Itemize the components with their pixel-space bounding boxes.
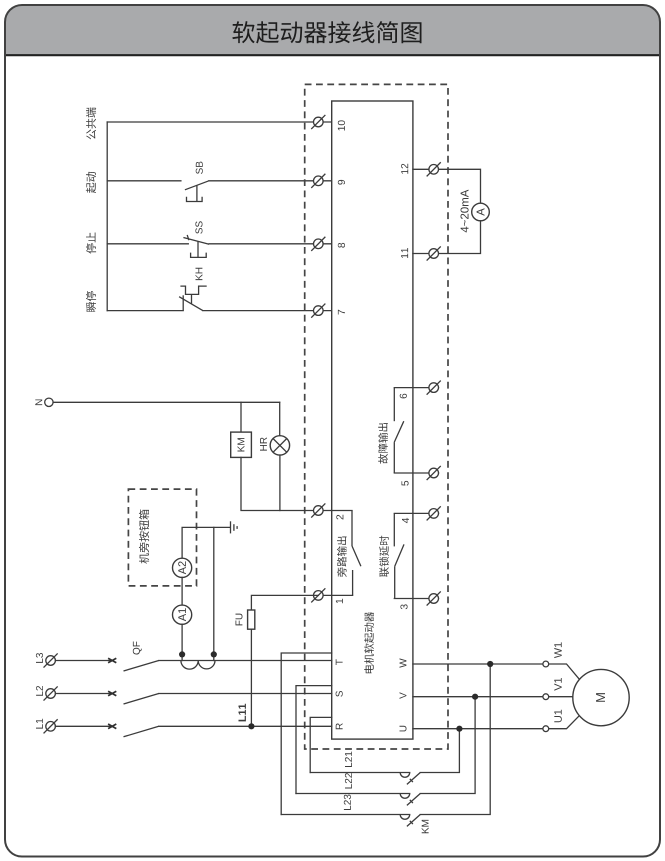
wire 停止 left segment [107, 243, 188, 245]
ammeter A (4~20mA) [472, 203, 490, 221]
wire A1 to CT lead 1 [181, 624, 183, 660]
terminal 10 [312, 115, 325, 128]
pin label 4 [402, 518, 409, 523]
label KH [196, 268, 203, 280]
wire S phase to box [159, 693, 332, 695]
wire CT lead 2 [213, 527, 215, 660]
breaker QF blade L3 [124, 661, 159, 672]
label A1 [178, 608, 186, 621]
label W1 [554, 642, 561, 658]
pin label 11 [401, 248, 408, 258]
wire KM contact row L23 left [281, 814, 410, 816]
wire pin 12 to ammeter [413, 169, 481, 203]
indicator lamp HR [270, 436, 289, 455]
junction V bypass [472, 694, 478, 700]
pin label T [336, 659, 343, 665]
terminal V1 [543, 694, 549, 700]
wire 瞬停 right segment to pin 7 [203, 310, 332, 312]
earth ground [231, 521, 238, 533]
terminal 5 [427, 466, 440, 479]
label A2 [178, 561, 186, 574]
wire L1 to breaker [55, 725, 111, 727]
label V1 [554, 678, 561, 691]
terminal 12 [427, 163, 440, 176]
breaker cross L2 [108, 691, 116, 696]
breaker cross L3 [108, 658, 116, 663]
label L22 [345, 773, 352, 788]
pin label 2 [336, 515, 343, 520]
terminal L1 [44, 720, 57, 733]
pin label W [400, 658, 407, 667]
button A1 [173, 605, 192, 624]
label FU [236, 614, 243, 626]
wire bypass riser from S [296, 686, 332, 794]
junction CT lead 1 [179, 651, 185, 657]
pin label 6 [400, 394, 407, 399]
wire 起动 right segment to pin 9 [209, 180, 332, 182]
label 旁路输出 [337, 537, 347, 578]
wire W output [413, 663, 543, 665]
terminal L3 [44, 654, 57, 667]
current transformer on T phase [181, 661, 215, 670]
pin label U [400, 726, 407, 732]
label 电机软起动器 [364, 612, 374, 673]
label N [35, 400, 42, 406]
label 4~20mA [461, 190, 469, 233]
fuse FU [248, 610, 255, 629]
thermal relay contact KH (NC) [179, 286, 207, 311]
contactor main contact KM contact row L22 [400, 794, 420, 806]
title bar fill [5, 5, 660, 55]
wire pin 6 stub [394, 387, 438, 389]
motor M [573, 669, 629, 725]
title 软起动器接线简图 [232, 21, 421, 43]
terminal L2 [44, 687, 57, 700]
wire A2 to ground corner [182, 527, 230, 558]
contactor main contact KM contact row L23 [400, 815, 420, 827]
wire T phase to box [159, 660, 332, 662]
wire R phase to box [159, 725, 332, 727]
label 起动 [86, 172, 96, 193]
terminal 3 [427, 592, 440, 605]
wire 公共端 (common) to pin 10 [107, 121, 332, 123]
wire ammeter to pin 11 [413, 221, 481, 254]
pin label 3 [400, 604, 407, 609]
pin label 5 [402, 481, 409, 486]
terminal 6 [427, 381, 440, 394]
label L1 [36, 719, 43, 729]
junction CT lead 2 [211, 651, 217, 657]
relay contact fault output 故障输出 [394, 388, 404, 473]
pin label 12 [401, 164, 408, 174]
control bus wire [106, 122, 108, 311]
terminal 2 [312, 504, 325, 517]
contactor coil KM [231, 432, 252, 457]
wire KM coil to node 2 [241, 457, 318, 510]
wire L2 to breaker [55, 693, 111, 695]
pin label R [336, 723, 343, 729]
terminal N circle [45, 398, 53, 406]
wire L3 to breaker [55, 660, 111, 662]
label 机旁按钮箱 [139, 510, 149, 564]
pin label 9 [338, 180, 345, 185]
terminal 8 [312, 237, 325, 250]
relay contact bypass output 旁路输出 [352, 511, 361, 596]
label KM coil [238, 438, 245, 451]
terminal U1 [543, 726, 549, 732]
wire bypass riser from R [310, 717, 332, 772]
label SB [196, 162, 203, 174]
label L3 [36, 653, 43, 663]
breaker QF blade L2 [124, 694, 159, 705]
wire U1 to motor [549, 715, 580, 728]
wire pin 1 into box [318, 594, 352, 596]
label L23 [344, 795, 351, 810]
wire pin 3 stub [394, 598, 438, 600]
button box enclosure 机旁按钮箱 [128, 489, 196, 586]
label KM bypass [422, 820, 429, 833]
label M [596, 693, 605, 702]
label 故障输出 [378, 423, 388, 464]
pin label 8 [338, 243, 345, 248]
label 瞬停 [86, 291, 96, 312]
terminal 4 [427, 507, 440, 520]
wire U output [413, 728, 543, 730]
wire bypass riser from T [281, 653, 332, 815]
pushbutton SS (stop, NC) [183, 235, 209, 258]
terminal 1 [312, 589, 325, 602]
label U1 [554, 710, 562, 723]
pin label 7 [338, 310, 345, 315]
wire KM contact row L21 left [310, 772, 410, 774]
pin label S [336, 691, 343, 697]
terminal 9 [312, 174, 325, 187]
breaker QF blade L1 [124, 726, 159, 737]
pin label 1 [336, 599, 343, 603]
wire fuse to L11 [250, 629, 252, 726]
label A in ammeter [477, 208, 485, 216]
wire V1 to motor [549, 696, 573, 698]
junction U bypass [456, 726, 462, 732]
dashed enclosure of soft starter [305, 84, 448, 749]
title bar separator [5, 54, 660, 56]
wire KM contact row L22 right [420, 697, 475, 794]
label QF [133, 642, 142, 655]
wire pin 5 stub [394, 472, 438, 474]
label HR [260, 437, 267, 450]
wire HR to node 2 [279, 455, 281, 510]
wire KM contact row L22 left [296, 793, 410, 795]
label 联锁延时 [379, 536, 389, 577]
relay contact interlock delay 联锁延时 [394, 513, 404, 598]
wire HR branch [279, 402, 281, 435]
wire pin 4 stub [394, 512, 438, 514]
junction L11 [248, 723, 254, 729]
label L21 [345, 752, 352, 767]
pin label 10 [338, 120, 345, 130]
wire KM contact row L21 right [420, 729, 459, 773]
wire N line [53, 401, 280, 403]
wire pin 2 into box [318, 510, 352, 512]
junction W bypass [487, 661, 493, 667]
contactor main contact KM contact row L21 [400, 773, 420, 785]
terminal W1 [543, 661, 549, 667]
terminal 7 [312, 304, 325, 317]
wire W1 to motor [549, 664, 580, 680]
wire A2 to A1 [181, 577, 183, 605]
label 公共端 [86, 108, 96, 140]
label L11 [239, 704, 246, 722]
label 停止 [86, 233, 96, 254]
soft starter box U1 电机软起动器 [332, 101, 413, 739]
wire KM contact row L23 right [420, 664, 490, 815]
breaker cross L1 [108, 724, 116, 729]
wire V output [413, 696, 543, 698]
button A2 [173, 558, 192, 577]
label SS [195, 221, 202, 233]
pushbutton SB (start, NO) [185, 181, 209, 202]
pin label V [400, 692, 407, 699]
wire pin 1 to fuse [251, 595, 318, 610]
label L2 [36, 686, 43, 696]
wire 起动 left segment [107, 180, 181, 182]
wire 瞬停 left segment [107, 310, 183, 312]
wire 停止 right segment to pin 8 [209, 243, 332, 245]
terminal 11 [427, 247, 440, 260]
wire N to KM coil [240, 402, 242, 432]
